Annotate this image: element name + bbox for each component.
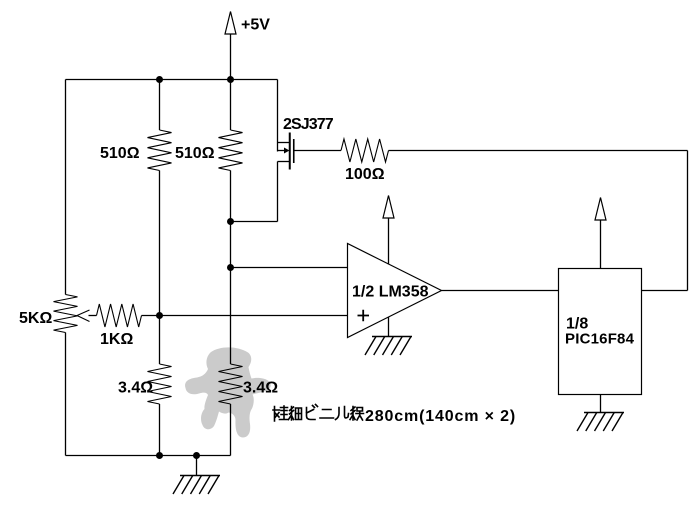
resistor R1 510Ω body: [148, 130, 172, 171]
node: top rail / +5V junction: [227, 76, 234, 83]
wire: node B to Q1 drain: [231, 221, 278, 223]
wire: Q1 drain lead down: [277, 162, 279, 222]
svg-text:510Ω: 510Ω: [175, 145, 215, 162]
wire: op-amp ground stem: [388, 317, 390, 337]
wire: column x=160 middle: [159, 171, 161, 365]
svg-text:1KΩ: 1KΩ: [100, 331, 133, 348]
op-amp U1 1/2 LM358: [348, 244, 442, 338]
wire: +5V stem: [230, 34, 232, 80]
wire: column x=231 middle: [230, 171, 232, 365]
ground (U2): [577, 413, 624, 432]
wire: U2 power stem: [600, 220, 602, 269]
wire: column x=160 upper lead: [159, 80, 161, 131]
wire: U2 ground stem: [600, 395, 602, 413]
wire: bottom rail: [66, 455, 231, 457]
wire: op-amp output to U2: [442, 290, 559, 292]
wire: R3 to node A: [142, 315, 160, 317]
+5V power arrow: [225, 12, 236, 35]
Q1 channel bar: [289, 133, 291, 170]
node A: R1/R3/R5 junction: [156, 312, 163, 319]
resistor R2 510Ω body: [219, 130, 243, 171]
wire: column x=231 upper lead: [230, 80, 232, 131]
svg-text:1/2 LM358: 1/2 LM358: [352, 284, 429, 301]
wire: left rail upper: [65, 80, 67, 295]
Q1 source stub: [278, 142, 290, 144]
resistor R4 100Ω body: [341, 139, 389, 162]
wire: Q1 gate to R4: [294, 150, 341, 152]
wire: op-amp power stem: [388, 218, 390, 265]
svg-text:510Ω: 510Ω: [100, 145, 140, 162]
resistor R3 1KΩ body: [97, 304, 142, 327]
svg-text:100Ω: 100Ω: [345, 166, 385, 183]
wire: ground stem (bottom): [196, 456, 198, 476]
Q1 gate bar: [293, 139, 295, 163]
IC U2 PIC16F84 box: [559, 269, 642, 395]
wire: column x=231 lower lead: [230, 404, 232, 456]
U2 power arrow: [595, 198, 606, 221]
potentiometer VR1 wiper arrow: [77, 310, 90, 322]
wire: right rail down: [687, 151, 689, 291]
Q1 drain stub: [278, 161, 290, 163]
glyph sai: [289, 407, 294, 421]
ground (bottom rail): [173, 476, 220, 495]
wire: left rail lower: [65, 333, 67, 456]
resistor R5 3.4Ω body: [148, 364, 172, 404]
node: top rail / R1 junction: [156, 76, 163, 83]
svg-text:PIC16F84: PIC16F84: [565, 331, 635, 348]
svg-text:2SJ377: 2SJ377: [283, 116, 334, 133]
Q1 body stub with arrow: [278, 150, 285, 152]
transistor Q1 2SJ377: [278, 80, 294, 222]
resistor R6 3.4Ω body: [219, 364, 243, 404]
hand-drawn grey figure annotation: [185, 347, 271, 437]
glyph ru: [336, 407, 349, 420]
note: kana-kanji word (drawn glyphs): [273, 405, 364, 422]
glyph sen: [350, 407, 355, 421]
svg-text:5KΩ: 5KΩ: [19, 310, 52, 327]
svg-text:3.4Ω: 3.4Ω: [118, 380, 153, 397]
svg-text:280cm(140cm × 2): 280cm(140cm × 2): [365, 408, 516, 425]
wire: wiper to R3: [89, 315, 97, 317]
svg-text:+5V: +5V: [241, 17, 270, 34]
op-amp + input mark: [358, 310, 370, 321]
svg-text:3.4Ω: 3.4Ω: [243, 380, 278, 397]
wire: node A to op-amp non-inverting input: [160, 315, 348, 317]
node: bottom rail ground junction: [193, 452, 200, 459]
wire: column x=160 lower lead: [159, 404, 161, 456]
glyph goku: [273, 407, 280, 422]
potentiometer VR1 5K body: [54, 295, 78, 333]
glyph bi: [307, 405, 318, 420]
glyph ni: [320, 410, 334, 419]
wire: top rail: [66, 79, 278, 81]
wire: R4 to right rail: [389, 150, 688, 152]
node B: drain junction: [227, 218, 234, 225]
node C: op-amp input junction: [227, 264, 234, 271]
wire: right rail to U2: [642, 290, 688, 292]
op-amp power arrow: [383, 196, 394, 219]
node: bottom rail / R5: [156, 452, 163, 459]
wire: node C to op-amp inverting input: [231, 267, 348, 269]
wire: Q1 source lead from top rail: [277, 80, 279, 152]
ground (op-amp): [365, 337, 412, 356]
